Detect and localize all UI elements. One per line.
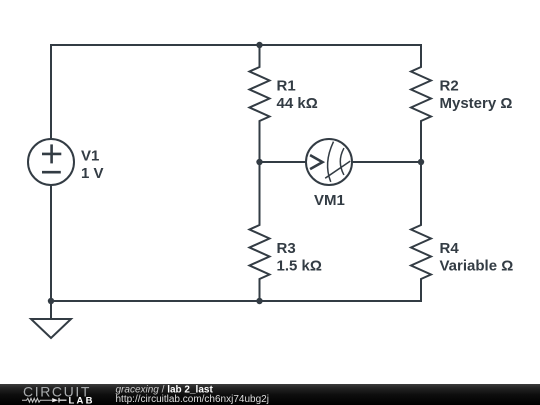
svg-text:R3: R3: [277, 240, 296, 257]
resistor R2: [411, 45, 431, 162]
svg-text:R1: R1: [277, 78, 296, 95]
svg-text:R4: R4: [440, 240, 460, 257]
svg-text:1.5 kΩ: 1.5 kΩ: [277, 258, 322, 275]
svg-text:Variable Ω: Variable Ω: [440, 258, 514, 275]
wire: left rail lower: [50, 185, 52, 301]
voltmeter VM1: [306, 139, 352, 185]
resistor R4: [411, 162, 431, 301]
junction: top node: [256, 42, 262, 48]
wire: VM1 left lead: [260, 161, 307, 163]
wire: top rail: [51, 44, 421, 46]
svg-text:VM1: VM1: [314, 192, 345, 209]
ground: [31, 301, 71, 338]
resistor R1: [250, 45, 270, 162]
junction: middle-left node: [256, 159, 262, 165]
junction: bottom node: [256, 298, 262, 304]
wire: left rail upper: [50, 45, 52, 139]
resistor R3: [250, 162, 270, 301]
voltage source V1: [28, 139, 74, 185]
svg-text:1 V: 1 V: [81, 165, 104, 182]
footer bar: [0, 384, 540, 405]
svg-text:R2: R2: [440, 78, 459, 95]
svg-text:Mystery Ω: Mystery Ω: [440, 95, 513, 112]
svg-text:LAB: LAB: [69, 395, 95, 405]
wire: VM1 right lead: [352, 161, 421, 163]
CircuitLab logo: [22, 384, 95, 405]
svg-text:44 kΩ: 44 kΩ: [277, 95, 318, 112]
junction: ground node: [48, 298, 54, 304]
junction: middle-right node: [418, 159, 424, 165]
svg-text:V1: V1: [81, 148, 99, 165]
svg-text:http://circuitlab.com/ch6nxj74: http://circuitlab.com/ch6nxj74ubg2j: [116, 394, 269, 405]
wire: bottom rail: [51, 300, 421, 302]
